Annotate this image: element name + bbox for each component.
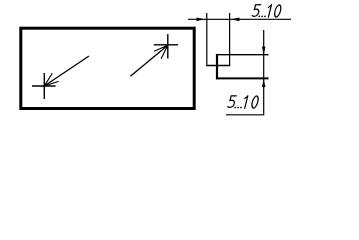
vertical sheet right edge / extension line bbox=[229, 13, 231, 66]
right dimension up arrow bbox=[262, 79, 266, 88]
horizontal sheet left edge (thick) bbox=[216, 54, 218, 80]
leader arrowhead at K1 bbox=[44, 73, 58, 86]
right dimension down arrow bbox=[262, 47, 266, 56]
vertical sheet left edge / extension line bbox=[206, 13, 208, 66]
part body rectangle bbox=[21, 28, 194, 108]
leader line to K2 bbox=[130, 45, 167, 76]
horizontal sheet bottom edge (thick) bbox=[216, 77, 269, 79]
top dimension right arrow bbox=[231, 18, 240, 22]
leader line to K1 bbox=[44, 56, 89, 86]
top dimension line bbox=[188, 18, 291, 20]
top dimension left arrow bbox=[197, 18, 206, 22]
top dimension text 5...10 bbox=[252, 5, 282, 18]
right dimension text 5...10 bbox=[227, 96, 259, 109]
right dimension vertical line with shelf bbox=[226, 30, 264, 115]
joint mark cross K2 (top-right) bbox=[154, 34, 178, 58]
joint mark cross K1 (bottom-left) bbox=[32, 73, 56, 99]
vertical sheet bottom edge bbox=[206, 65, 230, 67]
leader arrowhead at K2 bbox=[154, 45, 168, 58]
horizontal sheet top edge bbox=[217, 54, 269, 56]
